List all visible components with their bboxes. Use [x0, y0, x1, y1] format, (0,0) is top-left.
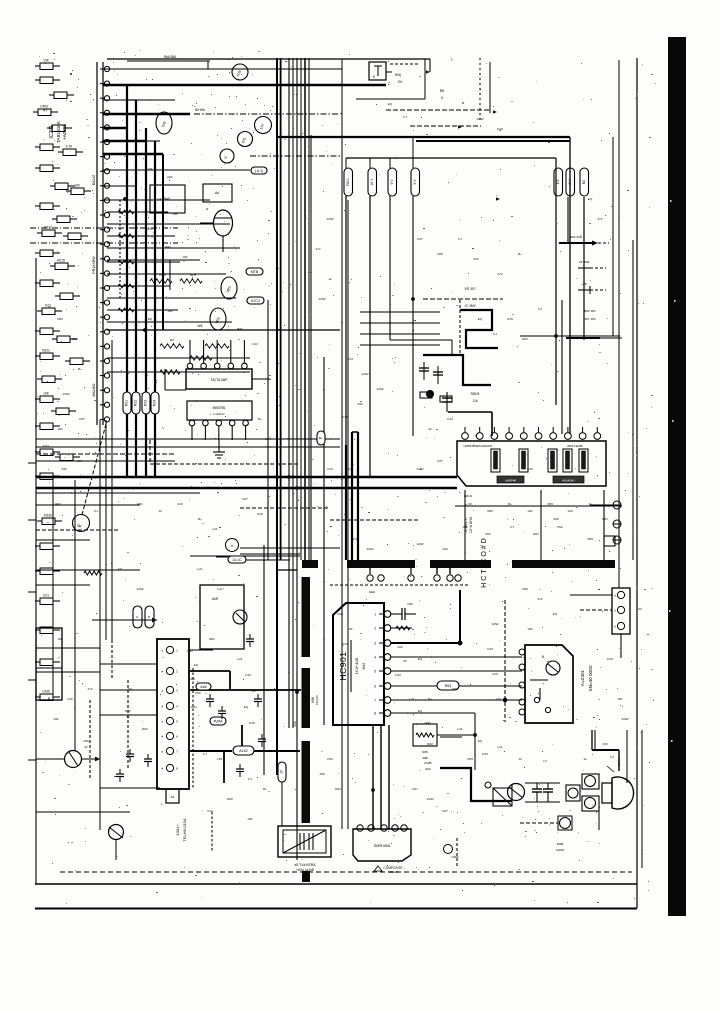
- capacitor: [35, 349, 60, 360]
- svg-text:C43: C43: [245, 673, 251, 677]
- svg-text:A1#2: A1#2: [239, 749, 247, 753]
- svg-text:1k: 1k: [588, 502, 592, 506]
- IC U203: [187, 401, 252, 440]
- wire: [410, 125, 481, 127]
- svg-text:C403: C403: [40, 105, 48, 109]
- svg-text:EQ: EQ: [118, 567, 123, 571]
- wire: [36, 492, 200, 494]
- resistor R953: [391, 681, 522, 690]
- wire: [578, 282, 606, 294]
- svg-text:+#G# 1#1#B: +#G# 1#1#B: [296, 868, 314, 872]
- svg-text:10K: 10K: [43, 392, 50, 396]
- wire: [189, 671, 230, 690]
- wire: [162, 154, 164, 330]
- wire: [341, 59, 343, 829]
- svg-text:EQ: EQ: [148, 317, 153, 321]
- IC U202: [186, 340, 252, 389]
- wire junction: [427, 391, 434, 398]
- wire: [360, 311, 440, 313]
- wire: [369, 590, 462, 645]
- svg-text:472: 472: [87, 687, 92, 691]
- svg-text:10K: 10K: [527, 509, 533, 513]
- fuse/regulator capsule F801: [344, 168, 353, 196]
- svg-text:R53: R53: [445, 684, 452, 688]
- capacitor: [126, 749, 134, 762]
- svg-text:D15: D15: [482, 752, 488, 756]
- svg-text:VR5: VR5: [587, 537, 593, 541]
- svg-text:10K: 10K: [53, 717, 59, 721]
- transistor Q503: [109, 825, 124, 861]
- wire: [28, 679, 36, 681]
- wire: [107, 297, 236, 299]
- label: [464, 494, 473, 498]
- IC U201 label: [43, 108, 67, 143]
- svg-text:100: 100: [495, 697, 500, 701]
- svg-text:47: 47: [84, 745, 88, 749]
- wire: [216, 557, 290, 560]
- capacitor: [433, 366, 443, 384]
- svg-text:a: a: [206, 207, 208, 211]
- svg-text:R23: R23: [144, 400, 148, 406]
- svg-text:B+: B+: [263, 787, 267, 791]
- svg-text:C43: C43: [157, 197, 163, 201]
- resistor: [35, 392, 60, 403]
- resistor R508: [233, 746, 254, 755]
- capsule TS-TC: [228, 556, 246, 563]
- svg-text:B+: B+: [198, 517, 202, 521]
- svg-text:0.1: 0.1: [493, 332, 498, 336]
- wire: [103, 140, 160, 142]
- wire: [107, 234, 175, 238]
- svg-text:10K: 10K: [527, 627, 533, 631]
- wire: [561, 300, 563, 434]
- svg-text:D#: D#: [58, 637, 62, 641]
- wire: [189, 689, 301, 691]
- capacitor C905: [391, 602, 416, 620]
- fuse/regulator capsule 5 V: [411, 168, 420, 196]
- svg-text:C43: C43: [252, 342, 258, 346]
- test point TP1: [221, 277, 237, 299]
- wire: [107, 356, 250, 360]
- svg-text:R#5: R#5: [422, 750, 428, 754]
- bus bar: [347, 560, 415, 568]
- resistor network: [150, 273, 202, 283]
- wire: [145, 128, 147, 477]
- wire: [590, 504, 613, 506]
- svg-text:10K: 10K: [182, 255, 188, 259]
- svg-text:R#2: R#2: [227, 797, 233, 801]
- capacitor C922: [543, 783, 553, 802]
- resistor: [35, 690, 60, 701]
- wire: [412, 137, 414, 436]
- svg-text:VR 30?: VR 30?: [464, 287, 475, 291]
- svg-text:+C 3MV: +C 3MV: [464, 304, 476, 308]
- svg-text:L21: L21: [217, 587, 222, 591]
- svg-text:d1#B: d1#B: [424, 761, 431, 765]
- svg-text:L21: L21: [217, 757, 222, 761]
- wire: [103, 199, 210, 201]
- svg-text:10K: 10K: [43, 59, 50, 63]
- test point V: [220, 149, 234, 163]
- svg-text:B+: B+: [78, 367, 82, 371]
- wire: [388, 725, 390, 829]
- wire: [146, 141, 155, 477]
- capacitor: [258, 734, 266, 747]
- wire: [566, 337, 622, 339]
- svg-text:L21: L21: [497, 745, 502, 749]
- jack J902: [582, 796, 599, 811]
- svg-text:VR5: VR5: [547, 502, 553, 506]
- wire: [456, 838, 458, 868]
- wire: [240, 507, 330, 509]
- svg-text:10K: 10K: [617, 697, 623, 701]
- resistor: [35, 280, 60, 287]
- wire: [28, 462, 36, 464]
- svg-text:C90: C90: [407, 602, 413, 606]
- test point TPB: [232, 64, 248, 80]
- capacitor: [35, 543, 60, 550]
- wire: [423, 298, 503, 300]
- svg-text:VR5: VR5: [57, 317, 63, 321]
- dash-dot wire: [30, 242, 178, 244]
- svg-text:VR5: VR5: [189, 677, 195, 681]
- capacitor: [35, 328, 60, 335]
- wire: [391, 626, 412, 630]
- svg-text:3#7 1#0: 3#7 1#0: [585, 317, 596, 321]
- svg-text:EQ: EQ: [588, 197, 593, 201]
- wire: [583, 197, 585, 340]
- svg-text:R#2: R#2: [335, 787, 341, 791]
- svg-text:100: 100: [74, 184, 80, 188]
- svg-text:100: 100: [567, 509, 572, 513]
- svg-text:C43: C43: [487, 647, 493, 651]
- resistor: [49, 92, 74, 99]
- svg-text:WA: WA: [197, 324, 203, 328]
- resistor: [420, 392, 452, 402]
- svg-text:2SC: 2SC: [557, 525, 564, 529]
- dash-dot wire: [30, 227, 178, 229]
- resistor: [35, 250, 60, 257]
- net label: [293, 721, 297, 727]
- wire: [603, 490, 605, 560]
- svg-text:1: 1: [374, 613, 376, 617]
- svg-text:C43: C43: [342, 642, 348, 646]
- capacitor: [206, 694, 214, 707]
- wire: [107, 223, 230, 225]
- svg-text:2SC: 2SC: [195, 691, 202, 695]
- svg-text:R#2: R#2: [425, 721, 431, 725]
- wire: [99, 420, 101, 830]
- svg-text:1/2W: 1/2W: [621, 717, 628, 721]
- svg-text:EQ: EQ: [194, 663, 199, 667]
- label: [311, 695, 319, 705]
- wire: [103, 108, 340, 114]
- capacitor: [419, 362, 429, 380]
- svg-text:5 V: 5 V: [413, 179, 417, 185]
- svg-text:16 V: 16 V: [370, 178, 374, 186]
- label: [464, 287, 476, 308]
- wire: [36, 460, 175, 462]
- svg-text:#U1#C#U: #U1#C#U: [562, 479, 574, 483]
- svg-text:R#2: R#2: [187, 649, 193, 653]
- svg-text:SMR MIN: SMR MIN: [374, 844, 391, 848]
- svg-text:MTB: MTB: [251, 270, 259, 274]
- svg-text:VIDEO: VIDEO: [388, 870, 398, 874]
- svg-text:R#2: R#2: [237, 327, 243, 331]
- resistor: [35, 203, 60, 210]
- capacitor: [35, 594, 60, 605]
- test point TP2: [210, 308, 226, 330]
- resistor R215: [151, 392, 159, 414]
- svg-text:R22: R22: [134, 400, 138, 406]
- resistor: [37, 226, 62, 237]
- wire: [440, 768, 512, 801]
- IC U902 audio block: [519, 645, 573, 723]
- wire: [440, 736, 462, 738]
- svg-text:A##: A##: [200, 685, 206, 689]
- wire: [424, 59, 426, 99]
- wire: [555, 158, 557, 405]
- svg-text:D15: D15: [607, 657, 613, 661]
- wire: [300, 58, 302, 560]
- wire: [386, 109, 489, 111]
- label: [424, 761, 431, 771]
- node TP4: [226, 539, 239, 552]
- wire: [391, 698, 522, 702]
- wire: [459, 300, 461, 355]
- svg-text:B+: B+: [428, 697, 432, 701]
- wire: [211, 812, 213, 852]
- wire: [612, 137, 614, 336]
- wire: [240, 547, 340, 549]
- svg-text:1/2W: 1/2W: [416, 467, 423, 471]
- wire: [391, 712, 475, 714]
- resistor: [50, 183, 75, 190]
- box: [203, 184, 232, 202]
- svg-text:+#8: +#8: [581, 282, 586, 286]
- svg-text:R81: R81: [191, 705, 197, 709]
- capacitor C810: [442, 392, 452, 412]
- svg-text:(.#.1): (.#.1): [255, 169, 263, 173]
- net label HCT: [481, 536, 488, 588]
- svg-text:1/2W: 1/2W: [318, 297, 325, 301]
- capacitor: [35, 445, 60, 456]
- test point TP8: [156, 112, 172, 134]
- svg-text:B+: B+: [518, 252, 522, 256]
- relay RL901: [566, 785, 580, 801]
- wire: [107, 321, 232, 323]
- label: [440, 57, 465, 105]
- wire: [448, 412, 492, 436]
- wire: [100, 663, 157, 665]
- svg-text:33#: 33#: [357, 402, 362, 406]
- wire: [107, 370, 250, 374]
- wire: [28, 591, 36, 593]
- wire: [28, 519, 36, 521]
- svg-text:C#9: C#9: [83, 739, 89, 743]
- wire: [36, 647, 100, 649]
- svg-text:R#2: R#2: [142, 727, 148, 731]
- wire: [280, 58, 282, 560]
- svg-text:R#2: R#2: [427, 742, 433, 746]
- IC U204: [150, 185, 185, 213]
- svg-text:R81: R81: [137, 502, 143, 506]
- bus bar: [302, 741, 311, 823]
- resistor network: [160, 338, 229, 348]
- wire: [107, 260, 200, 290]
- wire: [626, 730, 628, 783]
- svg-text:C#7: C#7: [442, 809, 448, 813]
- svg-text:A7C2: A7C2: [251, 299, 260, 303]
- svg-text:#22: #22: [425, 767, 430, 771]
- speaker SP901: [602, 766, 634, 809]
- wire: [127, 55, 210, 61]
- svg-text:2SC: 2SC: [327, 757, 334, 761]
- capacitor: [236, 764, 244, 777]
- svg-text:C#04: C#04: [451, 855, 459, 859]
- resistor R509: [210, 717, 226, 725]
- svg-text:VR5: VR5: [467, 757, 473, 761]
- svg-text:4.7: 4.7: [510, 525, 515, 529]
- wire: [459, 590, 461, 643]
- wire arrows: [426, 70, 500, 200]
- wire: [36, 453, 175, 455]
- svg-text:0.1: 0.1: [248, 777, 253, 781]
- wire: [341, 790, 343, 829]
- wire: [36, 487, 457, 489]
- wire: [346, 157, 556, 159]
- svg-text:EQ: EQ: [478, 739, 483, 743]
- wire: [103, 127, 127, 129]
- wire junction: [36, 476, 457, 478]
- label: [175, 818, 187, 841]
- svg-text:R#2: R#2: [147, 227, 153, 231]
- wire: [100, 689, 157, 691]
- svg-text:4#8#: 4#8#: [557, 842, 564, 846]
- wire: [641, 730, 643, 868]
- svg-text:1#: 1#: [280, 770, 284, 774]
- svg-text:4.7K: 4.7K: [66, 145, 73, 149]
- resistor: [37, 304, 62, 315]
- wire: [464, 490, 466, 560]
- svg-text:1/2W: 1/2W: [136, 587, 143, 591]
- svg-text:#: #: [231, 544, 233, 548]
- transistor Q201: [200, 207, 233, 252]
- wire: [520, 335, 556, 337]
- wire: [111, 340, 113, 640]
- svg-text:9 V: 9 V: [390, 179, 394, 185]
- connector CN501: [157, 639, 189, 803]
- svg-text:B#2 1#C: B#2 1#C: [584, 309, 597, 313]
- svg-text:M#2: M#2: [362, 663, 366, 670]
- relay K801: [369, 62, 402, 84]
- svg-text:2SC: 2SC: [337, 612, 344, 616]
- wire: [254, 750, 300, 752]
- capacitor: [37, 376, 62, 383]
- svg-text:33#: 33#: [61, 467, 66, 471]
- wire: [190, 555, 300, 557]
- svg-text:8#5: 8#5: [164, 197, 170, 201]
- svg-text:1001+: 1001+: [175, 824, 180, 836]
- svg-text:C#7: C#7: [437, 459, 443, 463]
- wire: [580, 609, 612, 611]
- svg-text:R#2 3C#: R#2 3C#: [570, 235, 582, 239]
- wire: [391, 670, 522, 672]
- svg-text:D15: D15: [497, 127, 503, 131]
- capsule: [278, 762, 286, 782]
- svg-text:LG+A OIY6: LG+A OIY6: [469, 517, 473, 533]
- svg-text:B: B: [542, 655, 544, 659]
- svg-text:1k: 1k: [158, 509, 162, 513]
- fuse/regulator capsule 4.5: [554, 168, 563, 196]
- svg-text:B+: B+: [258, 417, 262, 421]
- svg-text:d: d: [147, 616, 151, 618]
- wire: [165, 369, 186, 390]
- capacitor: [218, 706, 226, 719]
- resistor: [317, 431, 325, 445]
- svg-text:0.1: 0.1: [94, 509, 99, 513]
- wire: [559, 235, 609, 246]
- svg-text:EQ: EQ: [388, 102, 393, 106]
- capacitor: [50, 259, 75, 270]
- svg-text:1/2W: 1/2W: [62, 392, 69, 396]
- svg-text:13-1C: 13-1C: [232, 558, 242, 562]
- wire: [36, 584, 90, 586]
- wire: [540, 490, 542, 560]
- svg-text:1C#+4#E: 1C#+4#E: [354, 657, 359, 674]
- label: [471, 392, 480, 403]
- resistor: [35, 59, 60, 70]
- IC U201 pin strip: [97, 62, 110, 425]
- wire: [598, 811, 600, 830]
- resistor: [35, 423, 60, 430]
- wire: [111, 640, 113, 680]
- wire: [304, 58, 306, 560]
- svg-text:11k: 11k: [473, 399, 478, 403]
- wire: [103, 167, 267, 174]
- svg-text:4.7: 4.7: [543, 759, 548, 763]
- wire: [504, 600, 506, 722]
- svg-text:472: 472: [537, 597, 542, 601]
- wire: [567, 197, 569, 243]
- wire: [360, 333, 440, 335]
- wire: [107, 247, 240, 249]
- wire: [525, 783, 560, 802]
- svg-text:100: 100: [397, 645, 402, 649]
- svg-text:D15: D15: [527, 467, 533, 471]
- svg-text:0.01: 0.01: [43, 594, 49, 598]
- capacitor: [254, 694, 262, 707]
- svg-text:8%|: 8%|: [395, 73, 401, 77]
- svg-text:1/2W: 1/2W: [416, 542, 423, 546]
- svg-text:1k: 1k: [583, 757, 587, 761]
- capacitor: [52, 216, 77, 223]
- transformer T501: [278, 826, 331, 872]
- svg-text:472: 472: [352, 537, 357, 541]
- svg-text:R#2: R#2: [522, 337, 528, 341]
- svg-text:1WA#: 1WA#: [556, 848, 564, 852]
- wire: [107, 210, 168, 214]
- wire: [241, 725, 243, 746]
- svg-text:MB3756: MB3756: [213, 406, 226, 410]
- svg-text:R24: R24: [153, 400, 157, 406]
- component value labels: [55, 459, 614, 791]
- svg-text:4.7: 4.7: [403, 115, 408, 119]
- svg-text:220: 220: [67, 697, 72, 701]
- bus bar: [302, 668, 311, 728]
- capacitor: [35, 659, 60, 666]
- fuse/regulator capsule 9 V: [388, 168, 397, 196]
